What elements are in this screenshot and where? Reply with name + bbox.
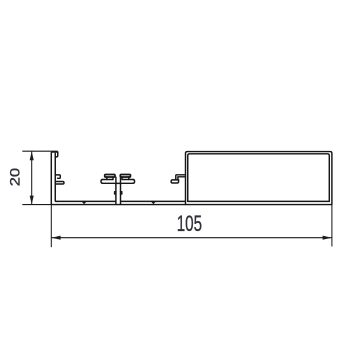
arrow up dim 20 [30,152,34,161]
dim text 20 [8,168,24,186]
T-rail right arm end cap [133,180,135,184]
arrow down dim 20 [30,196,34,205]
box exterior hook foot [171,180,179,183]
svg-text:20: 20 [8,168,24,186]
T-rail left arm end cap [101,180,103,184]
svg-text:105: 105 [177,212,202,236]
base top line right segment [121,200,185,202]
extension line bottom of dim 20 [22,204,51,206]
left wall outer face [51,152,58,204]
T-rail right arm top line [123,179,134,181]
box inner wall [188,154,330,202]
base top line left segment [56,200,115,202]
dim text 105 [177,212,202,236]
box exterior hook arm bottom [178,177,186,180]
box exterior hook arm top [176,175,186,180]
T-rail right head legs [122,177,129,180]
left wall top lip [56,152,58,157]
T-rail right arm bottom + stem right line [121,183,134,204]
left wall inner face [54,153,57,201]
T-rail centre channel walls [116,177,121,183]
extension line right of dim 105 [331,204,333,246]
stem nub right [121,192,122,194]
T-rail left head bar [105,175,115,178]
box outer wall [186,152,332,205]
extension line top of dim 20 [22,150,57,152]
T-rail left head legs [107,177,113,180]
arrow left dim 105 [52,236,61,240]
stem nub left [115,192,116,194]
base bottom line [51,204,332,206]
T-rail left arm top line [103,179,113,181]
screw-port tick right [152,202,155,204]
lower gasket hook on left wall [55,182,64,185]
screw-port tick left [83,202,86,204]
extension line left of dim 105 [50,205,52,248]
T-rail right head bar [120,175,130,178]
dimension line 20 [31,151,33,204]
T-rail left arm bottom + stem left line [103,183,116,204]
dimension line 105 [51,237,332,239]
upper gasket hook on left wall [55,175,60,178]
box inner bottom line [188,200,330,202]
arrow right dim 105 [323,236,332,240]
